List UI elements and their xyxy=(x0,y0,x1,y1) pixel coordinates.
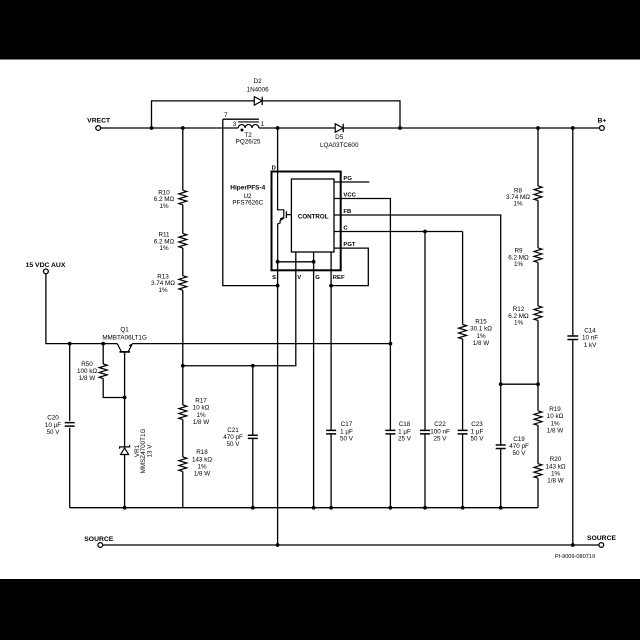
svg-text:10 µF: 10 µF xyxy=(45,422,61,429)
svg-text:1 µF: 1 µF xyxy=(340,428,353,435)
wire C22 branch xyxy=(424,232,426,508)
capacitor C21 xyxy=(248,435,258,438)
svg-text:HiperPFS-4: HiperPFS-4 xyxy=(230,185,265,192)
svg-text:1%: 1% xyxy=(550,420,560,427)
wire D2 bypass loop xyxy=(152,101,401,128)
wire FB node to B+ divider xyxy=(501,383,538,385)
wire VCC net through C18 xyxy=(389,434,391,508)
wire U2 drain drop xyxy=(277,128,279,172)
svg-text:B+: B+ xyxy=(597,117,606,124)
svg-text:1/8 W: 1/8 W xyxy=(547,428,564,435)
label Q1 value xyxy=(102,327,147,342)
junction V tap / divider chain xyxy=(181,364,185,368)
svg-text:470 pF: 470 pF xyxy=(509,443,529,450)
svg-text:PI-9009-080719: PI-9009-080719 xyxy=(555,554,595,560)
label R11 value xyxy=(154,232,175,252)
svg-text:1%: 1% xyxy=(514,320,524,327)
wire PGT pin loop to REF xyxy=(331,248,368,286)
junction internal bus / S pin xyxy=(276,260,280,264)
svg-text:100 nF: 100 nF xyxy=(430,428,450,435)
junction internal bus / G pin xyxy=(312,260,316,264)
junction ground rail / C18 xyxy=(389,506,393,510)
wire R15/C23 branch xyxy=(462,232,464,508)
wire main rail D5 to B+ xyxy=(343,127,599,129)
junction main rail / R10 divider chain xyxy=(181,126,185,130)
junction main rail / C14 xyxy=(571,126,575,130)
svg-text:30.1 kΩ: 30.1 kΩ xyxy=(470,326,492,333)
junction main rail / R8 chain xyxy=(536,126,540,130)
label R12 value xyxy=(508,306,529,326)
capacitor C20 xyxy=(65,423,75,427)
wire C14 branch B+ to SOURCE xyxy=(572,128,574,545)
wire S pin down to SOURCE rail xyxy=(277,262,279,545)
node VRECT input terminal xyxy=(87,118,111,131)
svg-text:100 kΩ: 100 kΩ xyxy=(77,368,97,375)
svg-text:SOURCE: SOURCE xyxy=(84,536,114,543)
svg-text:G: G xyxy=(315,275,320,281)
wire C21 branch xyxy=(252,366,254,508)
wire U2 internal source/ground bus xyxy=(278,261,314,263)
svg-text:PQ26/25: PQ26/25 xyxy=(236,139,261,146)
svg-text:10 kΩ: 10 kΩ xyxy=(193,405,210,412)
junction ground rail / C17 xyxy=(329,506,333,510)
label R18 value xyxy=(192,449,212,478)
junction S pin / T2 pin7 wire xyxy=(276,284,280,288)
svg-text:R17: R17 xyxy=(195,398,207,405)
resistor R20 xyxy=(534,464,542,479)
svg-text:1/8 W: 1/8 W xyxy=(79,375,96,382)
capacitor C23 xyxy=(458,430,468,434)
wire R50 branch xyxy=(103,344,124,398)
junction V tap / C21 xyxy=(251,364,255,368)
label C20 value xyxy=(45,415,61,436)
junction main rail / D2 bypass return xyxy=(398,126,402,130)
wire internal ground rail xyxy=(70,507,538,509)
wire C pin to C22/C23 xyxy=(334,231,463,233)
label D2 value xyxy=(247,78,270,93)
svg-text:CONTROL: CONTROL xyxy=(298,214,329,221)
svg-text:VRECT: VRECT xyxy=(87,118,111,125)
label C21 value xyxy=(223,427,243,448)
svg-text:50 V: 50 V xyxy=(471,435,485,442)
label U2 HiperPFS-4 xyxy=(230,185,265,207)
svg-text:15 VDC AUX: 15 VDC AUX xyxy=(26,262,66,269)
wire main rail from VRECT to T2 xyxy=(101,127,239,129)
label R17 value xyxy=(193,398,210,427)
resistor R17 xyxy=(179,405,187,420)
svg-text:50 V: 50 V xyxy=(513,450,527,457)
resistor R12 xyxy=(534,306,542,321)
svg-text:1%: 1% xyxy=(197,464,207,471)
junction main rail / D2 bypass riser xyxy=(150,126,154,130)
svg-text:PGT: PGT xyxy=(343,242,356,248)
junction base wire / R50 return xyxy=(123,396,127,400)
junction SOURCE rail / C14 xyxy=(571,543,575,547)
wire REF pin down through C17 xyxy=(330,252,332,508)
svg-text:C14: C14 xyxy=(584,328,596,335)
svg-text:1/8 W: 1/8 W xyxy=(193,419,210,426)
svg-text:C20: C20 xyxy=(47,415,59,422)
wire V pin to divider tap xyxy=(183,252,296,366)
svg-text:25 V: 25 V xyxy=(434,435,448,442)
svg-text:PFS7626C: PFS7626C xyxy=(232,200,263,207)
resistor R18 xyxy=(179,457,187,472)
junction ground rail / C23 xyxy=(461,506,465,510)
label R8 value xyxy=(506,187,530,207)
svg-text:143 kΩ: 143 kΩ xyxy=(545,463,565,470)
resistor R11 xyxy=(179,234,187,249)
label R10 value xyxy=(154,189,175,209)
transformer T2 phase dot xyxy=(241,129,244,132)
svg-text:C18: C18 xyxy=(399,421,411,428)
svg-text:1/8 W: 1/8 W xyxy=(194,471,211,478)
svg-text:1%: 1% xyxy=(513,201,523,208)
junction C pin wire / C22 xyxy=(423,230,427,234)
svg-text:C22: C22 xyxy=(434,421,446,428)
capacitor C22 xyxy=(420,430,430,434)
resistor R10 xyxy=(179,190,187,205)
capacitor C18 xyxy=(385,430,395,434)
junction ground rail / C22 xyxy=(423,506,427,510)
label VR1 value xyxy=(134,429,153,474)
svg-text:C23: C23 xyxy=(471,421,483,428)
svg-text:R20: R20 xyxy=(550,456,562,463)
svg-text:50 V: 50 V xyxy=(227,441,241,448)
svg-text:1N4006: 1N4006 xyxy=(247,86,270,93)
resistor R50 xyxy=(99,364,107,379)
svg-text:25 V: 25 V xyxy=(398,435,412,442)
wire PG pin stub xyxy=(334,181,369,183)
svg-text:1/8 W: 1/8 W xyxy=(473,340,490,347)
wire FB pin to feedback divider xyxy=(334,215,501,445)
junction SOURCE rail / S pin xyxy=(276,543,280,547)
svg-text:C19: C19 xyxy=(513,436,525,443)
svg-text:V: V xyxy=(297,275,301,281)
svg-text:1 µF: 1 µF xyxy=(471,428,484,435)
junction VCC net / emitter rail xyxy=(389,342,393,346)
svg-text:D2: D2 xyxy=(254,78,263,85)
svg-text:1%: 1% xyxy=(514,261,524,268)
wire VR1 to ground rail xyxy=(124,455,126,508)
label C23 value xyxy=(471,421,485,442)
wire Q1 emitter to VCC net xyxy=(132,343,390,345)
svg-text:143 kΩ: 143 kΩ xyxy=(192,456,212,463)
label C17 value xyxy=(340,421,354,442)
resistor R19 xyxy=(534,411,542,426)
svg-text:1%: 1% xyxy=(551,471,561,478)
svg-text:S: S xyxy=(272,275,276,281)
svg-text:FB: FB xyxy=(343,209,351,215)
svg-text:C17: C17 xyxy=(341,421,353,428)
label C14 value xyxy=(582,328,598,349)
junction aux rail / R50 xyxy=(101,342,105,346)
label C19 value xyxy=(509,436,529,457)
svg-text:1/8 W: 1/8 W xyxy=(547,478,564,485)
junction divider chain mid xyxy=(536,382,540,386)
svg-text:REF: REF xyxy=(333,275,345,281)
svg-text:MMBTA06LT1G: MMBTA06LT1G xyxy=(102,334,147,341)
node SOURCE right terminal xyxy=(587,535,617,547)
svg-text:1%: 1% xyxy=(196,412,206,419)
wire main rail T2 to D5 xyxy=(259,127,335,129)
svg-text:1%: 1% xyxy=(476,333,486,340)
junction ground rail / C21 xyxy=(251,506,255,510)
svg-text:R15: R15 xyxy=(475,319,487,326)
node 15 VDC AUX terminal xyxy=(26,262,66,274)
resistor R8 xyxy=(534,186,542,201)
svg-text:1: 1 xyxy=(261,121,265,128)
svg-text:LQA03TC600: LQA03TC600 xyxy=(320,142,359,149)
transistor internal MOSFET of U2 xyxy=(278,172,292,262)
transistor Q1 xyxy=(117,344,132,352)
label R50 value xyxy=(77,361,97,382)
wire G pin down to ground rail xyxy=(313,252,315,508)
svg-text:10 nF: 10 nF xyxy=(582,335,598,342)
diode D2 xyxy=(254,97,262,105)
label R20 value xyxy=(545,456,565,485)
svg-text:10 kΩ: 10 kΩ xyxy=(547,413,564,420)
capacitor C17 xyxy=(326,430,336,434)
node SOURCE left terminal xyxy=(84,536,114,547)
svg-text:R19: R19 xyxy=(549,406,561,413)
junction main rail / U2 drain xyxy=(276,126,280,130)
diode D5 xyxy=(335,124,343,132)
resistor R9 xyxy=(534,248,542,263)
svg-text:Q1: Q1 xyxy=(120,327,129,334)
svg-text:1%: 1% xyxy=(158,287,168,294)
svg-text:3: 3 xyxy=(233,121,237,128)
wire C20 branch xyxy=(69,344,71,508)
wire T2 pin7 down to S pin xyxy=(223,119,278,285)
label R13 value xyxy=(151,274,175,294)
svg-text:50 V: 50 V xyxy=(47,429,61,436)
wire SOURCE rail xyxy=(103,544,599,546)
capacitor C14 xyxy=(567,336,578,340)
label R19 value xyxy=(547,406,564,435)
svg-text:7: 7 xyxy=(224,112,228,119)
svg-text:13 V: 13 V xyxy=(146,444,153,458)
label R9 value xyxy=(508,248,529,268)
junction ground rail / G pin xyxy=(312,506,316,510)
svg-text:VCC: VCC xyxy=(343,193,356,199)
wire VCC pin to VCC net xyxy=(334,199,390,431)
junction ground rail / C19 xyxy=(499,506,503,510)
zener diode VR1 xyxy=(120,445,130,455)
label C18 value xyxy=(398,421,412,442)
capacitor C19 xyxy=(496,445,506,449)
svg-text:R18: R18 xyxy=(196,449,208,456)
wire B+ divider chain segments xyxy=(537,128,539,508)
wire 15V AUX to Q1 collector xyxy=(46,274,117,344)
transformer T2 winding xyxy=(223,119,259,128)
svg-text:1%: 1% xyxy=(159,245,169,252)
wire Q1 base down to VR1 xyxy=(124,352,126,446)
junction aux rail / C20 xyxy=(68,342,72,346)
svg-text:50 V: 50 V xyxy=(340,435,354,442)
U2 CONTROL block xyxy=(291,179,334,252)
svg-text:1 kV: 1 kV xyxy=(584,342,597,349)
label D5 value xyxy=(320,134,359,149)
svg-text:PG: PG xyxy=(343,176,352,182)
label R15 value xyxy=(470,319,492,348)
label T2 name xyxy=(236,132,261,146)
svg-text:C: C xyxy=(343,226,348,232)
svg-text:R50: R50 xyxy=(81,361,93,368)
svg-text:D5: D5 xyxy=(335,134,344,141)
wire divider chain segments xyxy=(182,128,184,508)
junction FB wire / divider xyxy=(499,382,503,386)
junction REF pin / PGT loop xyxy=(329,284,333,288)
resistor R15 xyxy=(459,325,467,340)
junction ground rail / VR1 xyxy=(123,506,127,510)
wire C19 lower lead xyxy=(500,449,502,508)
resistor R13 xyxy=(179,276,187,291)
svg-text:1 µF: 1 µF xyxy=(398,428,411,435)
svg-text:1%: 1% xyxy=(159,203,169,210)
node B+ output terminal xyxy=(597,117,606,130)
label C22 value xyxy=(430,421,450,442)
svg-text:SOURCE: SOURCE xyxy=(587,535,617,542)
op-amp U2 outer box xyxy=(272,172,341,271)
